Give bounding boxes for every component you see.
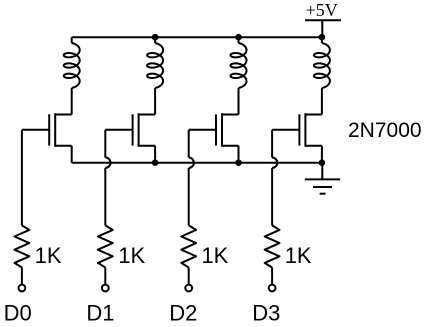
- svg-text:2N7000: 2N7000: [348, 119, 422, 142]
- svg-text:D1: D1: [86, 301, 114, 326]
- svg-text:D2: D2: [169, 301, 197, 326]
- svg-text:1K: 1K: [35, 243, 62, 268]
- svg-text:1K: 1K: [118, 243, 145, 268]
- svg-text:D0: D0: [4, 301, 32, 326]
- svg-text:D3: D3: [252, 301, 280, 326]
- svg-text:+5V: +5V: [306, 0, 338, 20]
- svg-text:1K: 1K: [201, 243, 228, 268]
- svg-text:1K: 1K: [285, 243, 312, 268]
